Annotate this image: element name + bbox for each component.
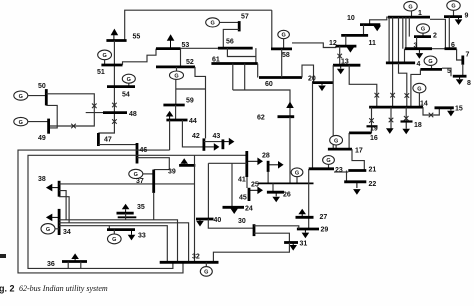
- svg-text:15: 15: [455, 106, 463, 113]
- generator G2: [417, 24, 430, 37]
- wire bus13 to bus14 transformer feeder: [349, 65, 377, 107]
- bus 56: [218, 47, 253, 50]
- bus 21: [348, 169, 366, 172]
- load arrow bus 8: [456, 76, 464, 85]
- bus 33: [107, 228, 135, 231]
- wire bus58 to bus60: [281, 49, 283, 78]
- wire bus36 stem: [68, 262, 81, 269]
- wire bus38 drop b: [59, 197, 69, 223]
- wire bus5 down to bus14: [411, 69, 421, 107]
- svg-text:21: 21: [369, 167, 377, 174]
- transformer mark 49 wire: [71, 124, 76, 129]
- wire bus37 to triple: [153, 193, 155, 220]
- wire bus44 to wireA: [169, 120, 171, 150]
- svg-text:9: 9: [465, 13, 469, 20]
- wire bus44 to bus42: [182, 120, 204, 147]
- svg-text:35: 35: [137, 204, 145, 211]
- wire bus13 to bus17: [332, 65, 334, 149]
- wire bus57 to bus56: [223, 29, 239, 48]
- load arrow left bus 34: [46, 214, 59, 222]
- bus 59: [163, 104, 184, 107]
- svg-text:28: 28: [262, 153, 270, 160]
- svg-text:41: 41: [238, 177, 246, 184]
- svg-text:49: 49: [38, 135, 46, 142]
- bus 43: [221, 139, 224, 149]
- generator G50: [14, 91, 47, 100]
- bus 51: [101, 64, 122, 67]
- svg-text:52: 52: [186, 59, 194, 66]
- svg-text:G: G: [112, 237, 116, 243]
- generator G23: [323, 156, 335, 169]
- svg-text:33: 33: [138, 233, 146, 240]
- bus 26: [267, 191, 284, 194]
- bus 40: [196, 218, 214, 221]
- svg-text:G: G: [127, 77, 131, 83]
- load arrow right bus 42: [204, 143, 220, 151]
- bus 6: [445, 47, 457, 50]
- transformer mark 14-19: [369, 118, 374, 123]
- generator G58: [278, 30, 290, 49]
- svg-text:18: 18: [414, 122, 422, 129]
- svg-text:2: 2: [433, 33, 437, 40]
- wire bus14 load drop b: [390, 107, 392, 128]
- svg-text:G: G: [334, 138, 338, 144]
- svg-text:G: G: [417, 86, 421, 92]
- stray mark left margin: [0, 254, 6, 258]
- bus 37: [152, 170, 155, 193]
- generator G49: [14, 117, 49, 125]
- transformer mark 4-14: [405, 93, 410, 98]
- bus 34: [58, 209, 61, 235]
- svg-text:20: 20: [308, 76, 316, 83]
- bus 58: [271, 48, 292, 51]
- bus 10 wire from bus1: [370, 17, 388, 25]
- load arrow bus 12: [347, 46, 355, 53]
- generator G1: [404, 1, 417, 17]
- load arrow bus 26: [272, 192, 280, 202]
- bus 36: [62, 260, 87, 263]
- wire bus46 to bus37: [137, 158, 169, 170]
- wire bus3 to bus4: [404, 49, 406, 63]
- svg-text:24: 24: [245, 206, 253, 213]
- bus 50: [45, 89, 48, 105]
- generator G34: [41, 224, 59, 234]
- svg-text:56: 56: [226, 39, 234, 46]
- wire bus1 to bus2 v6: [408, 17, 410, 36]
- load arrow bus 29: [302, 229, 310, 238]
- wire bus1 to bus14 with transformer: [392, 17, 394, 107]
- gen arrow up bus 36: [71, 253, 79, 261]
- bus 62: [278, 115, 295, 118]
- bus 25: [258, 182, 314, 184]
- load arrow right bus 43: [223, 138, 235, 146]
- gen arrow up bus 44: [166, 111, 174, 120]
- bus 48: [103, 111, 127, 114]
- svg-text:G: G: [428, 59, 432, 65]
- svg-text:6: 6: [451, 42, 455, 49]
- svg-text:44: 44: [189, 118, 197, 125]
- wire bus1 to bus4 v3: [398, 17, 400, 63]
- bus 17: [328, 148, 352, 151]
- bus 14: [369, 106, 423, 109]
- load arrow bus 18: [402, 122, 410, 135]
- wire bus9 to bus6: [448, 17, 450, 49]
- generator G32: [200, 262, 212, 276]
- svg-text:62: 62: [257, 115, 265, 122]
- svg-text:G: G: [210, 21, 214, 27]
- load arrow bus 31: [289, 243, 297, 251]
- svg-text:12: 12: [329, 40, 337, 47]
- wire bus10 to bus11: [363, 25, 365, 36]
- wire bus2 to bus3: [416, 37, 418, 49]
- svg-text:23: 23: [335, 167, 343, 174]
- bus 16: [349, 131, 371, 134]
- wire bus40 to bus30: [208, 219, 254, 228]
- wire bus1 drop v1: [388, 17, 390, 63]
- load arrow bus 33: [128, 230, 136, 241]
- wire bus20 to bus23 column: [312, 83, 314, 169]
- svg-text:32: 32: [192, 254, 200, 261]
- bus 10: [360, 23, 380, 26]
- generator G33: [108, 230, 122, 244]
- gen arrow up bus 39: [180, 158, 188, 165]
- svg-text:47: 47: [104, 137, 112, 144]
- svg-text:40: 40: [214, 217, 222, 224]
- load arrow right bus 45: [249, 187, 263, 195]
- svg-text:30: 30: [238, 218, 246, 225]
- svg-text:58: 58: [282, 52, 290, 59]
- wire top rail to bus58: [271, 10, 273, 49]
- bus 46: [136, 143, 139, 164]
- wire bus61 drop a to 62 rail: [232, 64, 234, 91]
- bus 15: [435, 106, 454, 109]
- wire bus52 to bus42: [195, 67, 206, 138]
- wire stub near 48: [86, 112, 103, 114]
- svg-text:G: G: [204, 270, 208, 276]
- svg-text:51: 51: [97, 69, 105, 76]
- arrow up on bus62 feeder: [286, 102, 294, 109]
- wire bus62 stub: [289, 117, 291, 184]
- svg-text:50: 50: [38, 83, 46, 90]
- wire bus49 connection: [48, 125, 50, 127]
- svg-text:G: G: [174, 73, 178, 79]
- wire bus6 to bus7: [457, 49, 463, 60]
- wire bus41 to bus45: [246, 177, 248, 188]
- bus 20: [312, 81, 333, 84]
- bus 24: [223, 206, 245, 209]
- wire bus56 to bus61: [227, 48, 256, 63]
- bus 53: [156, 47, 181, 50]
- svg-text:G: G: [281, 33, 285, 39]
- bus 38: [58, 181, 61, 197]
- bus 35 lower bar: [118, 216, 137, 218]
- bus 11: [341, 34, 368, 37]
- transformer mark 48 lower: [112, 119, 117, 124]
- svg-text:11: 11: [369, 40, 377, 47]
- wire bus53 to bus56: [181, 47, 218, 49]
- svg-text:G: G: [102, 53, 106, 59]
- generator G25: [291, 168, 303, 183]
- svg-text:45: 45: [239, 195, 247, 202]
- bus 7: [461, 56, 464, 65]
- generator G57: [206, 18, 239, 27]
- wire bus1 to bus3 v4: [402, 17, 404, 49]
- bus 61: [211, 62, 257, 65]
- wire bus11 to bus12: [345, 35, 347, 46]
- svg-text:g. 2: g. 2: [0, 284, 15, 294]
- wire bus58 to bus12: [292, 43, 336, 48]
- wire bus61 drop b to 62 rail: [244, 64, 246, 91]
- svg-text:1: 1: [418, 10, 422, 17]
- wire bus59 to bus44: [175, 105, 177, 120]
- wire bus28 to bus25: [267, 172, 269, 184]
- load arrow right bus 28: [268, 161, 284, 169]
- wire bus14 to bus19 with transformer: [371, 107, 373, 133]
- generator G14: [413, 83, 426, 107]
- svg-text:G: G: [451, 4, 455, 10]
- wire bus23 to bus21: [334, 171, 348, 173]
- svg-text:G: G: [326, 158, 330, 164]
- wire bus35 bars link: [125, 213, 127, 220]
- wire bus7 to bus8: [462, 65, 464, 77]
- bus 29: [297, 228, 319, 231]
- wire bus21 to bus22: [346, 171, 348, 182]
- svg-text:57: 57: [241, 14, 249, 21]
- wire bus39 riser to wireB: [194, 155, 196, 262]
- load arrow bus 55: [111, 29, 119, 41]
- load arrow bus 3: [416, 49, 424, 59]
- wire bus61 to bus60: [257, 64, 259, 78]
- wire triple line 2: [59, 223, 189, 262]
- svg-text:14: 14: [420, 101, 428, 108]
- wire bus37 right drop: [154, 183, 195, 185]
- wire bus52 to bus59: [176, 79, 206, 105]
- bus 28: [267, 161, 270, 172]
- generator G17: [330, 135, 343, 149]
- bus 39: [179, 164, 195, 167]
- transformer mark drop b: [389, 118, 394, 123]
- bus 8: [453, 75, 467, 78]
- wire bus30 to bus29: [254, 226, 299, 229]
- bus 57: [238, 21, 241, 31]
- wire column 55-51-54-48: [98, 41, 114, 134]
- transformer mark 1-14: [390, 93, 395, 98]
- wire triple line 1: [59, 220, 177, 262]
- bus 41: [245, 151, 248, 177]
- wire bus1 to bus3 v5: [405, 17, 407, 49]
- svg-text:17: 17: [355, 148, 363, 155]
- wire bus31 to bus32: [213, 243, 289, 263]
- svg-text:29: 29: [321, 227, 329, 234]
- bus 52: [156, 66, 195, 69]
- svg-text:31: 31: [300, 241, 308, 248]
- wire bus51 to bus53 zigzag: [123, 49, 157, 65]
- wire bus25 to bus26: [272, 183, 274, 192]
- bus 13: [333, 64, 360, 67]
- svg-text:38: 38: [38, 176, 46, 183]
- load arrow bus 24: [230, 207, 238, 214]
- bus 12: [336, 45, 357, 48]
- svg-text:G: G: [46, 227, 50, 233]
- svg-text:25: 25: [251, 182, 259, 189]
- generator G37: [129, 169, 154, 178]
- svg-text:G: G: [408, 4, 412, 10]
- transformer mark 13-14: [375, 93, 380, 98]
- bus 47: [97, 133, 100, 146]
- load arrow bus 53: [167, 34, 175, 48]
- wire bus3 to bus6: [432, 48, 445, 50]
- wire bus38 to bus37: [59, 183, 154, 185]
- wire bus60 to bus20: [302, 65, 314, 83]
- svg-text:7: 7: [466, 52, 470, 59]
- load arrow bus 40: [196, 219, 204, 227]
- bus 44: [166, 119, 187, 122]
- svg-text:34: 34: [63, 229, 71, 236]
- bus 55: [106, 39, 126, 42]
- bus 5: [420, 68, 442, 71]
- svg-text:43: 43: [213, 133, 221, 140]
- transformer mark 54-48: [112, 103, 117, 108]
- svg-text:37: 37: [136, 178, 144, 185]
- svg-text:59: 59: [186, 98, 194, 105]
- load arrow bus 13: [337, 65, 345, 74]
- svg-text:27: 27: [320, 214, 328, 221]
- wire bus50 to bus49: [46, 105, 57, 128]
- svg-text:5: 5: [447, 68, 451, 75]
- load arrow bus 10: [373, 25, 381, 32]
- bus 18: [401, 120, 413, 122]
- wire bus14 to bus18: [405, 107, 407, 121]
- load arrow bus 22: [353, 182, 361, 195]
- wire B rect inner top: [28, 155, 247, 268]
- wire bus12 to bus13 with transformer: [339, 46, 341, 65]
- transformer mark 14-15: [429, 113, 434, 118]
- transformer mark 12-13: [337, 54, 342, 59]
- bus 30: [253, 224, 256, 236]
- bus 19: [367, 125, 378, 127]
- svg-text:G: G: [19, 120, 23, 126]
- load arrow bus 20: [318, 83, 326, 92]
- svg-text:61: 61: [212, 57, 220, 64]
- transformer mark 14-18: [404, 116, 409, 121]
- bus 35: [117, 212, 134, 215]
- gen arrow up bus 27: [298, 209, 306, 218]
- bus 42: [202, 138, 205, 150]
- svg-text:G: G: [421, 27, 425, 33]
- generator G9: [447, 1, 460, 17]
- svg-text:3: 3: [414, 43, 418, 50]
- svg-text:13: 13: [341, 59, 349, 66]
- bus 32: [160, 261, 219, 264]
- transformer mark 50-48: [92, 104, 97, 109]
- wire bus33 riser: [108, 226, 110, 230]
- wire bus30 to bus31: [254, 233, 289, 242]
- svg-text:10: 10: [347, 15, 355, 22]
- generator G5: [424, 56, 437, 69]
- wire bus14 to bus15 with transformer: [423, 107, 439, 115]
- generator G52: [170, 67, 184, 80]
- wire bus40 riser: [207, 163, 209, 219]
- svg-text:26: 26: [283, 192, 291, 199]
- wire A rect outer top: [18, 150, 183, 273]
- wire bus53 to bus52: [180, 49, 182, 67]
- svg-text:55: 55: [133, 34, 141, 41]
- wire bus41 to bus28 arrow: [247, 158, 263, 166]
- load arrow bus 15: [447, 108, 455, 117]
- svg-text:4: 4: [417, 61, 421, 68]
- bus 27: [296, 216, 314, 219]
- load arrow bus 9: [455, 17, 463, 25]
- svg-text:19: 19: [370, 126, 378, 133]
- bus 54: [107, 85, 135, 88]
- wire bus17 to bus21: [352, 149, 364, 170]
- wire bus50 to bus48 with transformer: [46, 94, 94, 126]
- svg-text:36: 36: [47, 261, 55, 268]
- wire bus41 to bus24: [208, 163, 246, 207]
- bus 60: [259, 76, 302, 79]
- generator G51: [98, 50, 112, 65]
- bus 9: [444, 15, 462, 18]
- bus 23: [309, 167, 334, 170]
- svg-text:48: 48: [129, 111, 137, 118]
- wire bus55 riser to top rail: [125, 10, 272, 40]
- bus 3: [405, 47, 432, 50]
- svg-text:60: 60: [265, 81, 273, 88]
- svg-text:62-bus Indian utility system: 62-bus Indian utility system: [19, 284, 108, 293]
- bus 22: [344, 180, 366, 183]
- svg-text:8: 8: [467, 80, 471, 87]
- wire bus1 to bus6: [430, 19, 445, 48]
- wire bus4 to bus14 with transformer: [399, 63, 407, 107]
- wire bus47 to bus46: [98, 144, 137, 146]
- svg-text:54: 54: [122, 92, 130, 99]
- svg-text:G: G: [295, 171, 299, 177]
- svg-text:39: 39: [168, 169, 176, 176]
- wire bus23 column down: [308, 169, 310, 229]
- wire bus42 to bus43: [204, 141, 223, 143]
- svg-text:42: 42: [192, 133, 200, 140]
- load arrow left bus 38: [46, 184, 59, 192]
- wire triple line 3: [59, 226, 167, 263]
- bus 45: [248, 188, 251, 201]
- generator G54: [122, 74, 135, 86]
- gen arrow up bus 35: [122, 204, 130, 213]
- bus 31: [284, 241, 298, 244]
- load arrow drop b: [386, 128, 394, 134]
- svg-text:22: 22: [369, 181, 377, 188]
- bus 4: [386, 62, 415, 65]
- wire bus38 drop a: [59, 191, 66, 220]
- svg-text:16: 16: [370, 135, 378, 142]
- wire bus16 to bus17: [348, 133, 350, 149]
- svg-text:G: G: [19, 94, 23, 100]
- bus 49: [47, 119, 50, 134]
- wire bus5 to bus8: [442, 68, 451, 76]
- bus 2: [414, 35, 431, 38]
- wire rail to bus62: [233, 90, 290, 117]
- bus 1: [388, 16, 430, 19]
